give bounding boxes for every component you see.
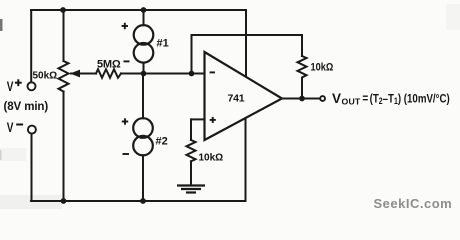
svg-text:10kΩ: 10kΩ [199, 153, 224, 164]
svg-text:V: V [7, 78, 14, 94]
svg-text:10kΩ: 10kΩ [311, 62, 334, 74]
svg-text:741: 741 [228, 92, 245, 104]
svg-text:#1: #1 [157, 38, 169, 50]
svg-text:SeekIC.com: SeekIC.com [374, 196, 453, 211]
svg-text:50kΩ: 50kΩ [33, 71, 58, 82]
svg-text:(8V min): (8V min) [4, 101, 49, 113]
svg-text:V: V [332, 91, 341, 106]
svg-text:#2: #2 [156, 136, 168, 148]
svg-text:=: = [362, 93, 368, 106]
svg-text:V: V [7, 119, 14, 135]
svg-text:5MΩ: 5MΩ [97, 59, 121, 71]
svg-text:OUT: OUT [342, 97, 361, 107]
